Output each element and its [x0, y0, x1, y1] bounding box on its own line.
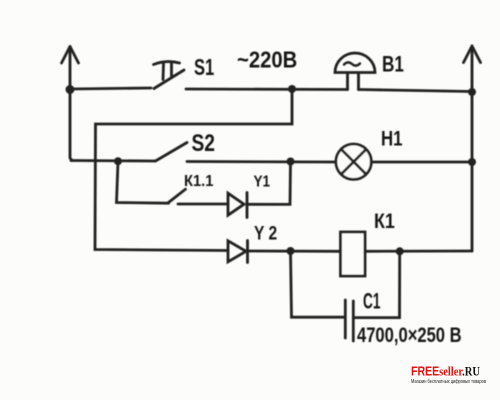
right rail	[471, 92, 474, 251]
bell B1	[335, 53, 375, 90]
svg-text:4700,0×250 В: 4700,0×250 В	[357, 324, 462, 347]
wire Y1 up to S2 output node	[247, 162, 291, 205]
wire K1.1 branch	[117, 162, 169, 204]
svg-text:S1: S1	[194, 55, 214, 80]
left supply arrow	[62, 47, 79, 91]
node top right	[468, 88, 476, 96]
wire lamp to right rail	[371, 161, 472, 164]
wire K1.1 to diode Y1	[178, 203, 228, 206]
node left rail arrow	[66, 85, 75, 94]
node relay input	[287, 247, 295, 255]
wire C1 left leg	[291, 251, 346, 317]
svg-text:C1: C1	[363, 288, 380, 313]
wire C1 right leg	[353, 251, 399, 317]
node K1.1 branch	[114, 157, 122, 165]
wire S2 to lamp	[187, 160, 336, 163]
relay coil K1	[341, 232, 366, 276]
pushbutton S1	[154, 62, 185, 89]
wire S2 input	[71, 159, 155, 162]
wire Y2 to relay	[248, 250, 341, 253]
svg-text:~220В: ~220В	[237, 46, 297, 73]
capacitor C1	[345, 300, 353, 341]
wire branch after S1 down-left to Y2 line	[95, 89, 292, 251]
lamp H1	[336, 144, 371, 179]
node relay output	[396, 247, 404, 255]
node Y1 top	[287, 158, 295, 166]
wire S1 to bell	[186, 88, 348, 91]
wire bell to right rail	[359, 90, 473, 92]
diode Y1	[228, 193, 247, 218]
diode Y2	[228, 241, 248, 263]
svg-text:FREEseller.RU: FREEseller.RU	[411, 364, 480, 379]
svg-text:Магазин бесплатных цифровых то: Магазин бесплатных цифровых товаров	[411, 379, 486, 385]
node after S1	[288, 85, 296, 93]
svg-text:H1: H1	[381, 128, 403, 151]
svg-text:К1.1: К1.1	[184, 173, 213, 190]
wire left rail	[70, 89, 72, 161]
svg-text:S2: S2	[192, 129, 215, 157]
right supply arrow	[464, 46, 481, 92]
svg-text:Y 2: Y 2	[254, 222, 277, 244]
svg-text:B1: B1	[382, 53, 404, 78]
svg-text:К1: К1	[374, 210, 395, 234]
svg-text:Y1: Y1	[254, 174, 271, 191]
relay contact K1.1	[169, 189, 186, 202]
switch S2	[156, 143, 188, 162]
wire top rail to S1	[70, 88, 151, 89]
node right rail lamp	[468, 158, 476, 166]
wire relay to right rail	[365, 250, 472, 253]
